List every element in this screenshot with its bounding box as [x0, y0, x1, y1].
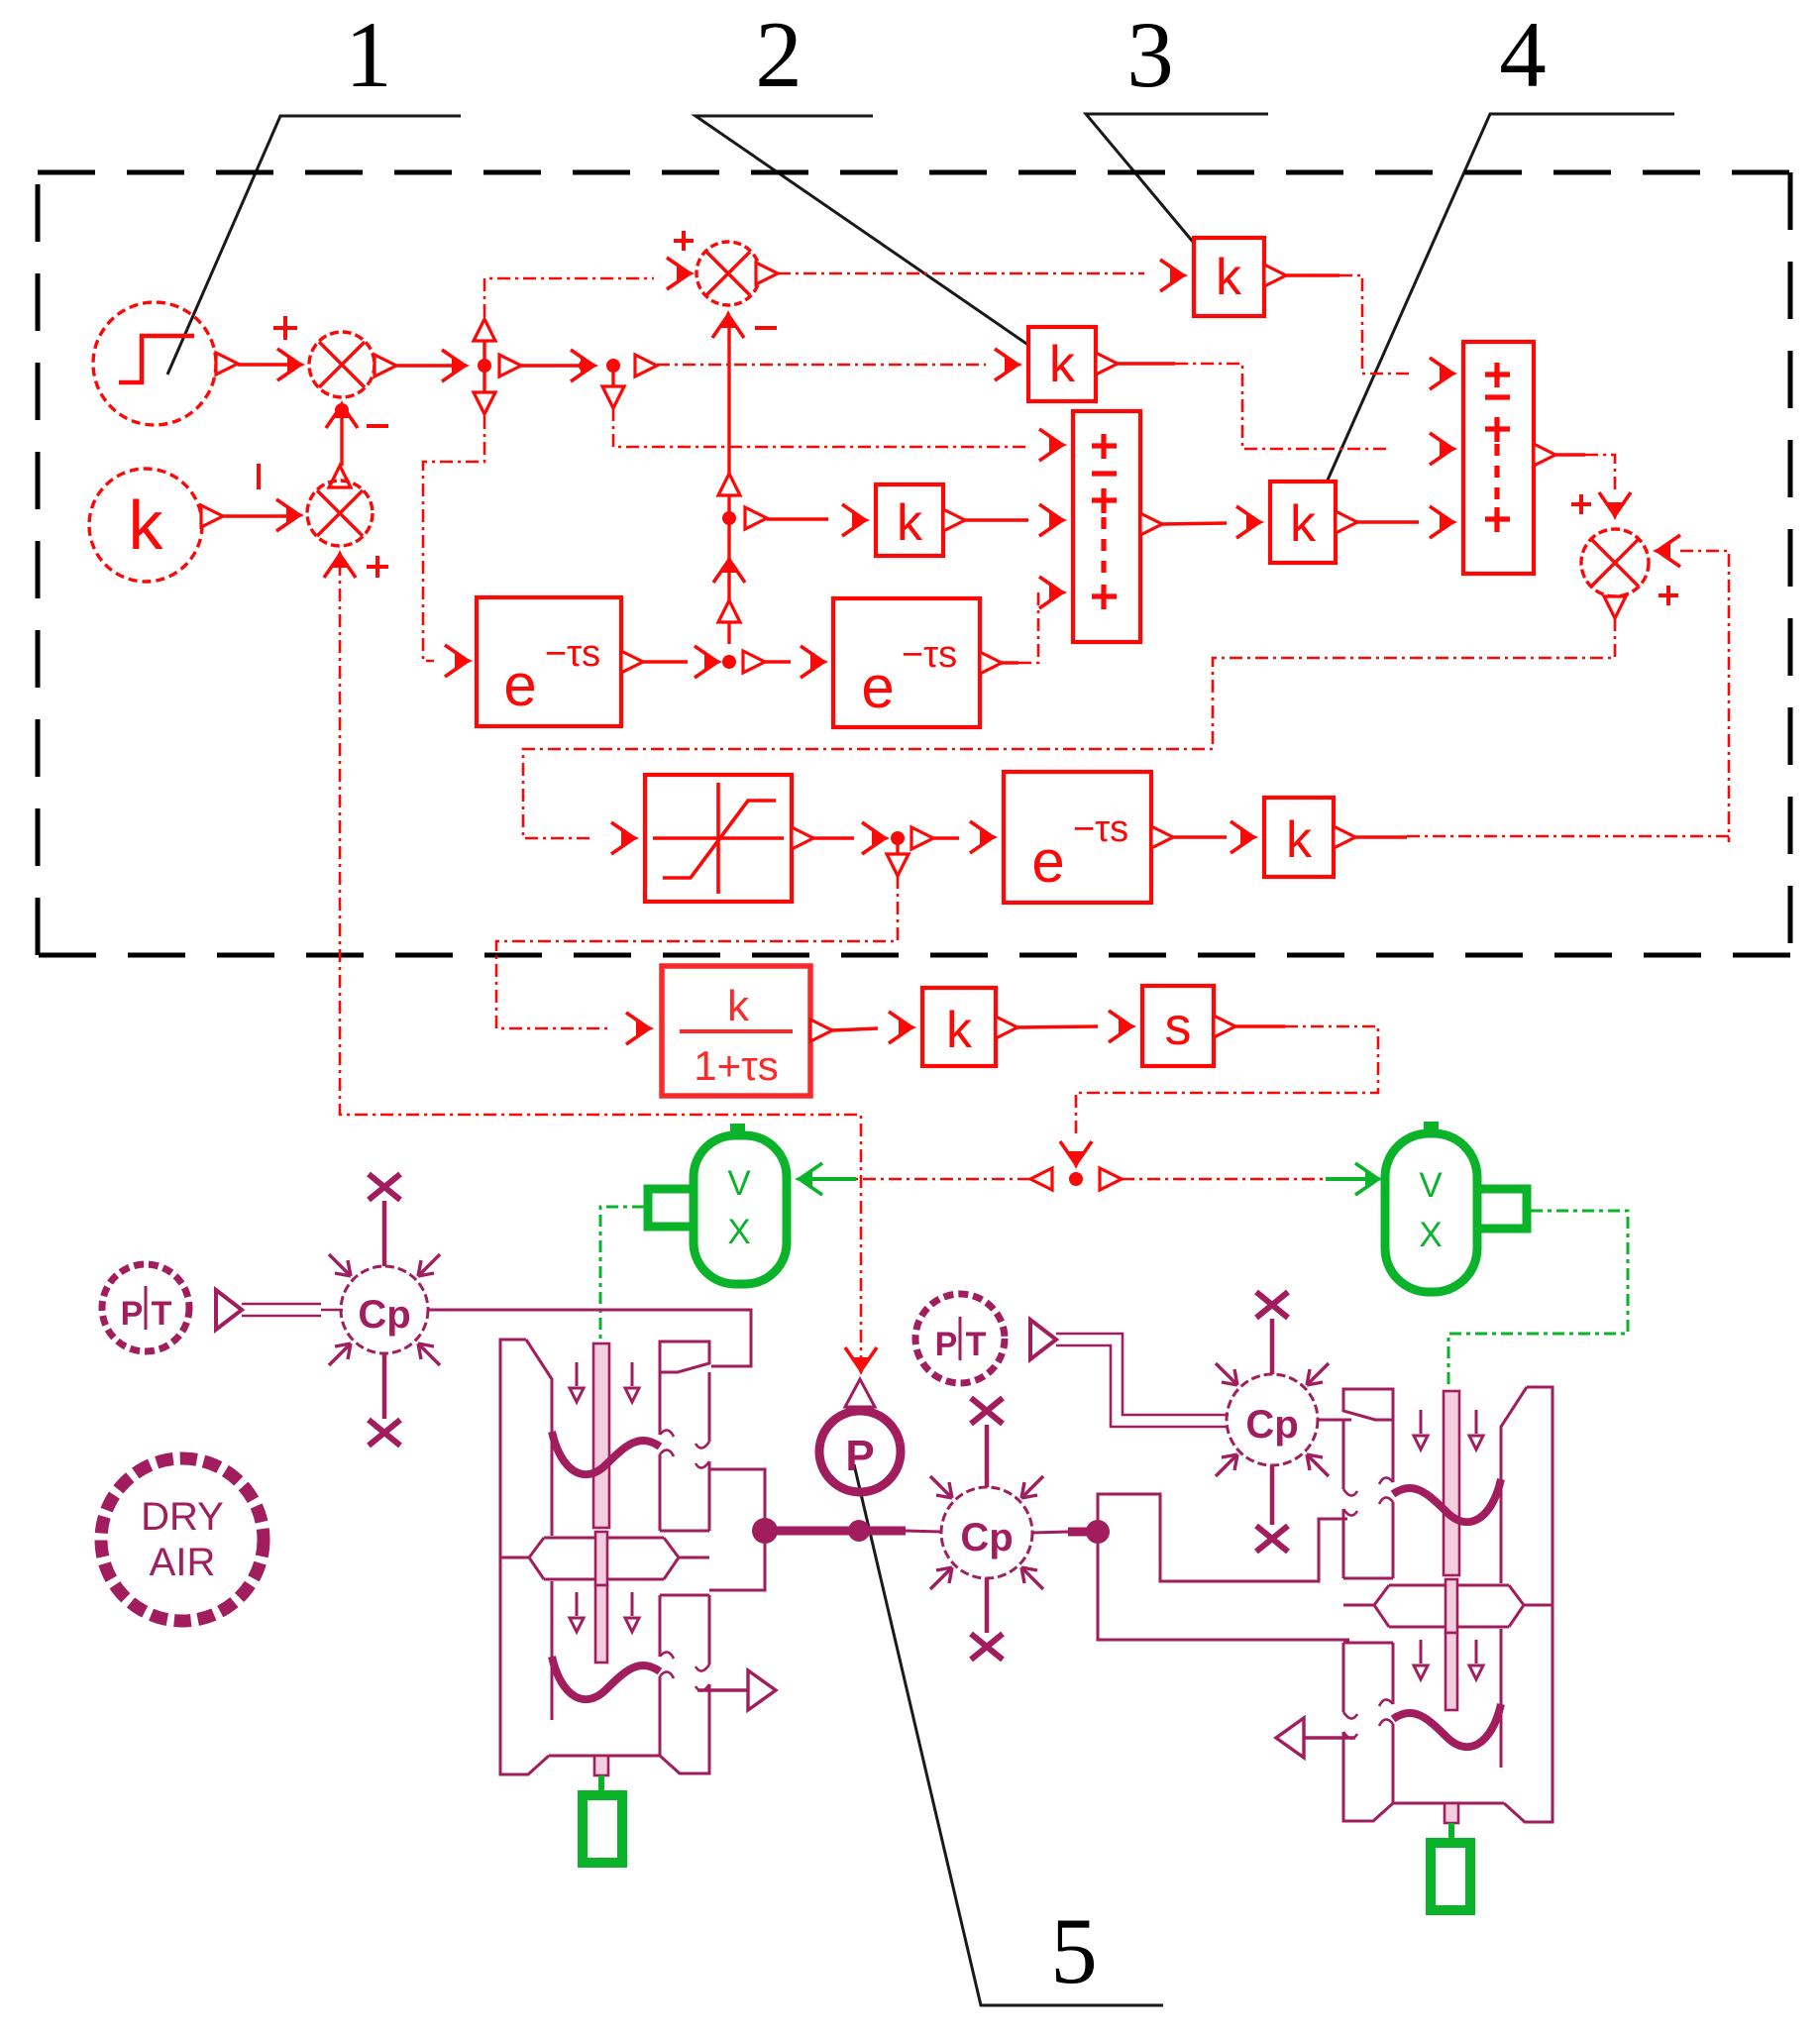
multiplier M2: [307, 481, 373, 546]
wire e1 to node C: [643, 660, 688, 663]
label 1: [345, 2, 392, 107]
delay e3 block: [1004, 772, 1151, 903]
wire lag to k6: [832, 1028, 878, 1030]
saturation block: [645, 775, 792, 902]
HX2 outlet arrow: [1304, 1736, 1355, 1739]
valve VX1: [648, 1124, 787, 1284]
svg-text:k: k: [1290, 495, 1317, 553]
S1 bottom input arrow: [712, 310, 744, 338]
delay e1 block: [477, 597, 621, 726]
heat exchanger 1 (left): [500, 1340, 709, 1863]
node A cross junction: [478, 359, 491, 373]
wire k4 to summator SB bottom: [1357, 520, 1419, 523]
svg-text:k: k: [1049, 336, 1076, 393]
svg-text:P: P: [121, 1295, 144, 1333]
pressure source P: [819, 1379, 901, 1492]
wire k6 to s block: [1017, 1026, 1098, 1027]
node B junction: [606, 359, 620, 373]
wire M1 to node A: [396, 364, 458, 367]
svg-text:e: e: [503, 652, 536, 718]
svg-text:DRY: DRY: [141, 1495, 224, 1539]
green dash-dot VX2 to right exchanger tube: [1448, 1211, 1628, 1387]
wire s to node E distribution: [1235, 1024, 1285, 1027]
stepped pipe lower to right exchanger: [1098, 1532, 1349, 1640]
svg-text:3: 3: [1126, 2, 1174, 107]
gain k3m block: [876, 484, 943, 556]
wire step to mult1: [238, 363, 293, 366]
delay e2 block: [833, 598, 980, 727]
svg-text:k: k: [1286, 811, 1313, 869]
PT1 output triangle: [216, 1290, 242, 1330]
pipe Cp1 to exchanger 1: [428, 1310, 751, 1366]
PT1 double pipe to Cp1: [242, 1304, 343, 1316]
wire saturation to node D: [813, 836, 854, 839]
summator SB right: [1463, 342, 1534, 574]
svg-text:V: V: [727, 1164, 751, 1203]
svg-text:T: T: [152, 1295, 172, 1333]
svg-text:1: 1: [345, 2, 392, 107]
lag block k/(1+ts): [662, 966, 810, 1096]
wire e2 up into SM bottom: [1002, 661, 1018, 664]
leader line 2: [696, 116, 1051, 361]
pipe Cp2 to node dot: [1032, 1532, 1068, 1533]
HX1 loop pipe: [709, 1469, 765, 1590]
dash-dot node A down to e1: [423, 416, 484, 661]
source DRY AIR: [101, 1458, 264, 1621]
wire k to mult2: [223, 514, 291, 517]
gain k3 top block: [1194, 238, 1264, 316]
svg-text:e: e: [1031, 828, 1064, 895]
main thick pipe with junctions: [752, 1518, 778, 1544]
dash-dot node A up to summer S1: [484, 278, 654, 317]
svg-text:k: k: [727, 982, 750, 1030]
k output port: [201, 505, 223, 527]
svg-text:T: T: [966, 1326, 987, 1363]
step output port: [216, 353, 238, 375]
summator SM middle: [1073, 411, 1140, 642]
leader line 4: [1310, 114, 1674, 520]
gain k6 block: [922, 988, 996, 1066]
compressor Cp3 right: [1216, 1292, 1329, 1552]
vertical feedback line x=736: [727, 319, 730, 474]
svg-text:k: k: [946, 1002, 973, 1059]
svg-text:2: 2: [755, 2, 803, 107]
PT2 output triangle: [1030, 1320, 1056, 1359]
compressor Cp1: [329, 1174, 440, 1446]
svg-text:k: k: [1216, 249, 1242, 306]
minus at S1 bottom: [755, 326, 777, 330]
svg-text:Cp: Cp: [358, 1293, 410, 1337]
dash-dot node B down into SM top: [613, 408, 1025, 447]
wire k2 to summator SB middle: [1118, 362, 1175, 365]
sensor PT2: [915, 1294, 1005, 1383]
svg-text:Cp: Cp: [1245, 1403, 1298, 1447]
wire SB to summer S2: [1555, 453, 1585, 456]
M1 bottom input arrow from M2: [335, 403, 349, 417]
svg-text:V: V: [1419, 1166, 1443, 1205]
multiplier M1: [309, 332, 375, 397]
svg-text:X: X: [1419, 1216, 1442, 1254]
wire k3m to summator SM: [965, 518, 1028, 521]
leader line 1: [167, 116, 461, 375]
dash-dot node E to right valve: [1122, 1178, 1326, 1181]
HX1 outlet arrow: [697, 1688, 748, 1691]
feedback dash-dot from P sensor up to M2: [340, 563, 861, 1367]
dashed frame border: [38, 172, 1790, 955]
gain k5 block: [1264, 798, 1334, 877]
s block: [1142, 986, 1214, 1066]
S2 right input arrow: [1653, 535, 1680, 567]
svg-text:P: P: [845, 1432, 874, 1480]
svg-text:4: 4: [1499, 2, 1547, 107]
leader line 5: [854, 1464, 1163, 2005]
PT2 double pipe to Cp3: [1056, 1334, 1229, 1427]
svg-text:AIR: AIR: [150, 1541, 216, 1584]
plus at S2 right input: [1659, 586, 1678, 605]
svg-text:s: s: [1165, 997, 1192, 1056]
green arrow into left valve VX1: [804, 1177, 856, 1181]
svg-text:−τs: −τs: [902, 634, 957, 676]
node D junction: [891, 831, 905, 845]
summer circle S1: [696, 242, 760, 305]
svg-text:k: k: [897, 494, 923, 552]
green dash-dot VX1 to exchanger tube: [600, 1207, 644, 1442]
plus sign at mult1 left input: [273, 316, 297, 340]
valve VX2: [1385, 1122, 1527, 1292]
wire k3 to summator SB top: [1286, 273, 1339, 276]
pipe Cp3 to right exchanger flag: [1318, 1419, 1351, 1422]
wire e3 to k5: [1173, 835, 1227, 838]
S2 output port down: [1604, 596, 1626, 618]
node D down port: [896, 838, 899, 854]
plus at M2 bottom: [367, 556, 388, 578]
wire node B to gain k2: [657, 364, 986, 367]
wire node to gain k3m: [745, 507, 767, 529]
M2 bottom input arrow: [324, 550, 356, 578]
leader line 3: [1086, 114, 1268, 284]
wire node C to e2: [765, 660, 791, 663]
stepped pipe upper to right exchanger: [1098, 1494, 1347, 1581]
S1 output port: [756, 263, 778, 284]
compressor Cp2 middle: [930, 1398, 1043, 1660]
sensor PT1: [102, 1264, 189, 1351]
svg-text:1+τs: 1+τs: [694, 1042, 778, 1089]
tick at mult2 left input: [257, 464, 261, 489]
dash-dot node D to lag block: [496, 876, 898, 1028]
wire SM to k4: [1162, 523, 1227, 524]
wire node A to node B: [521, 364, 587, 367]
dash-dot S2 down-left to saturation: [523, 618, 1615, 838]
dash-dot node E to left valve: [856, 1178, 1030, 1181]
svg-text:−τs: −τs: [1073, 808, 1128, 850]
source: step generator circle: [93, 302, 216, 425]
node A out right port: [499, 355, 521, 376]
green arrow into right valve VX2: [1326, 1177, 1373, 1181]
svg-text:k: k: [129, 486, 164, 564]
summer circle S2: [1581, 529, 1649, 596]
plus at S1 left input: [674, 231, 694, 251]
svg-text:P: P: [935, 1326, 958, 1363]
wire M2 out up to M1: [340, 410, 343, 466]
svg-text:X: X: [727, 1213, 750, 1251]
node E junction: [1069, 1172, 1083, 1186]
svg-text:5: 5: [1050, 1898, 1098, 2003]
node C junction: [722, 655, 736, 669]
minus at M1 bottom: [367, 424, 388, 428]
wire k5 feedback to S2: [1355, 835, 1407, 838]
gain k2 block: [1028, 327, 1096, 401]
heat exchanger 2 (right, mirrored): [1343, 1387, 1552, 1910]
M1 output port: [375, 355, 396, 376]
svg-text:e: e: [861, 654, 894, 720]
svg-text:Cp: Cp: [960, 1516, 1013, 1559]
svg-text:−τs: −τs: [545, 633, 600, 675]
plus at S2 top input: [1571, 494, 1591, 514]
dash-dot S1 to gain k3: [778, 272, 1144, 275]
gain k4 block: [1270, 482, 1336, 563]
source: k constant circle: [89, 469, 202, 582]
